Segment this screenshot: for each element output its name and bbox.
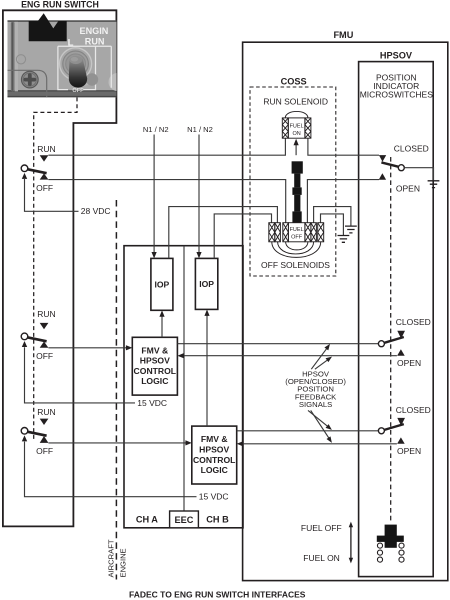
svg-text:LOGIC: LOGIC xyxy=(141,376,168,386)
svg-text:N1 / N2: N1 / N2 xyxy=(187,125,213,134)
svg-text:FUEL: FUEL xyxy=(290,124,304,130)
svg-text:FUEL ON: FUEL ON xyxy=(303,553,340,563)
svg-text:CONTROL: CONTROL xyxy=(134,366,177,376)
svg-text:CLOSED: CLOSED xyxy=(396,405,431,415)
svg-text:OFF: OFF xyxy=(36,351,53,361)
svg-text:FMU: FMU xyxy=(333,30,353,40)
svg-text:FUEL OFF: FUEL OFF xyxy=(301,523,342,533)
svg-text:HPSOV: HPSOV xyxy=(380,51,413,61)
svg-text:IOP: IOP xyxy=(154,280,169,290)
svg-text:COSS: COSS xyxy=(281,76,307,86)
svg-text:MICROSWITCHES: MICROSWITCHES xyxy=(360,89,434,99)
svg-text:HPSOV: HPSOV xyxy=(199,445,229,455)
svg-text:OFF: OFF xyxy=(36,446,53,456)
svg-text:N1 / N2: N1 / N2 xyxy=(143,125,169,134)
svg-text:28 VDC: 28 VDC xyxy=(81,206,111,216)
svg-text:FMV &: FMV & xyxy=(141,345,168,355)
svg-text:AIRCRAFT: AIRCRAFT xyxy=(106,539,115,577)
svg-text:CLOSED: CLOSED xyxy=(394,143,429,153)
svg-text:15 VDC: 15 VDC xyxy=(137,398,167,408)
svg-text:FADEC TO ENG RUN SWITCH INTERF: FADEC TO ENG RUN SWITCH INTERFACES xyxy=(129,589,306,599)
svg-text:HPSOV: HPSOV xyxy=(140,356,170,366)
svg-text:OFF: OFF xyxy=(36,183,53,193)
svg-text:CH B: CH B xyxy=(206,514,229,524)
svg-text:ENGINE: ENGINE xyxy=(119,548,128,577)
svg-text:OFF: OFF xyxy=(291,234,303,240)
svg-text:15 VDC: 15 VDC xyxy=(199,492,229,502)
svg-text:OPEN: OPEN xyxy=(397,446,421,456)
svg-text:ENGIN: ENGIN xyxy=(80,26,109,36)
svg-text:CONTROL: CONTROL xyxy=(193,455,236,465)
svg-text:RUN: RUN xyxy=(37,144,55,154)
svg-text:RUN: RUN xyxy=(85,36,105,46)
svg-text:OFF SOLENOIDS: OFF SOLENOIDS xyxy=(261,260,330,270)
svg-text:RUN SOLENOID: RUN SOLENOID xyxy=(263,97,328,107)
svg-text:ON: ON xyxy=(292,131,300,137)
svg-text:OFF: OFF xyxy=(72,88,84,94)
svg-text:CLOSED: CLOSED xyxy=(396,317,431,327)
svg-text:LOGIC: LOGIC xyxy=(201,465,228,475)
svg-text:SIGNALS: SIGNALS xyxy=(299,400,332,409)
svg-text:RUN: RUN xyxy=(37,407,55,417)
svg-text:OPEN: OPEN xyxy=(396,184,420,194)
svg-text:OPEN: OPEN xyxy=(397,358,421,368)
svg-text:EEC: EEC xyxy=(175,515,194,525)
svg-text:FMV &: FMV & xyxy=(201,434,228,444)
svg-text:IOP: IOP xyxy=(199,279,214,289)
svg-text:RUN: RUN xyxy=(37,309,55,319)
svg-text:ENG RUN SWITCH: ENG RUN SWITCH xyxy=(21,0,99,10)
svg-text:L: L xyxy=(68,37,74,48)
svg-text:CH A: CH A xyxy=(136,514,158,524)
svg-text:FUEL: FUEL xyxy=(290,227,304,233)
